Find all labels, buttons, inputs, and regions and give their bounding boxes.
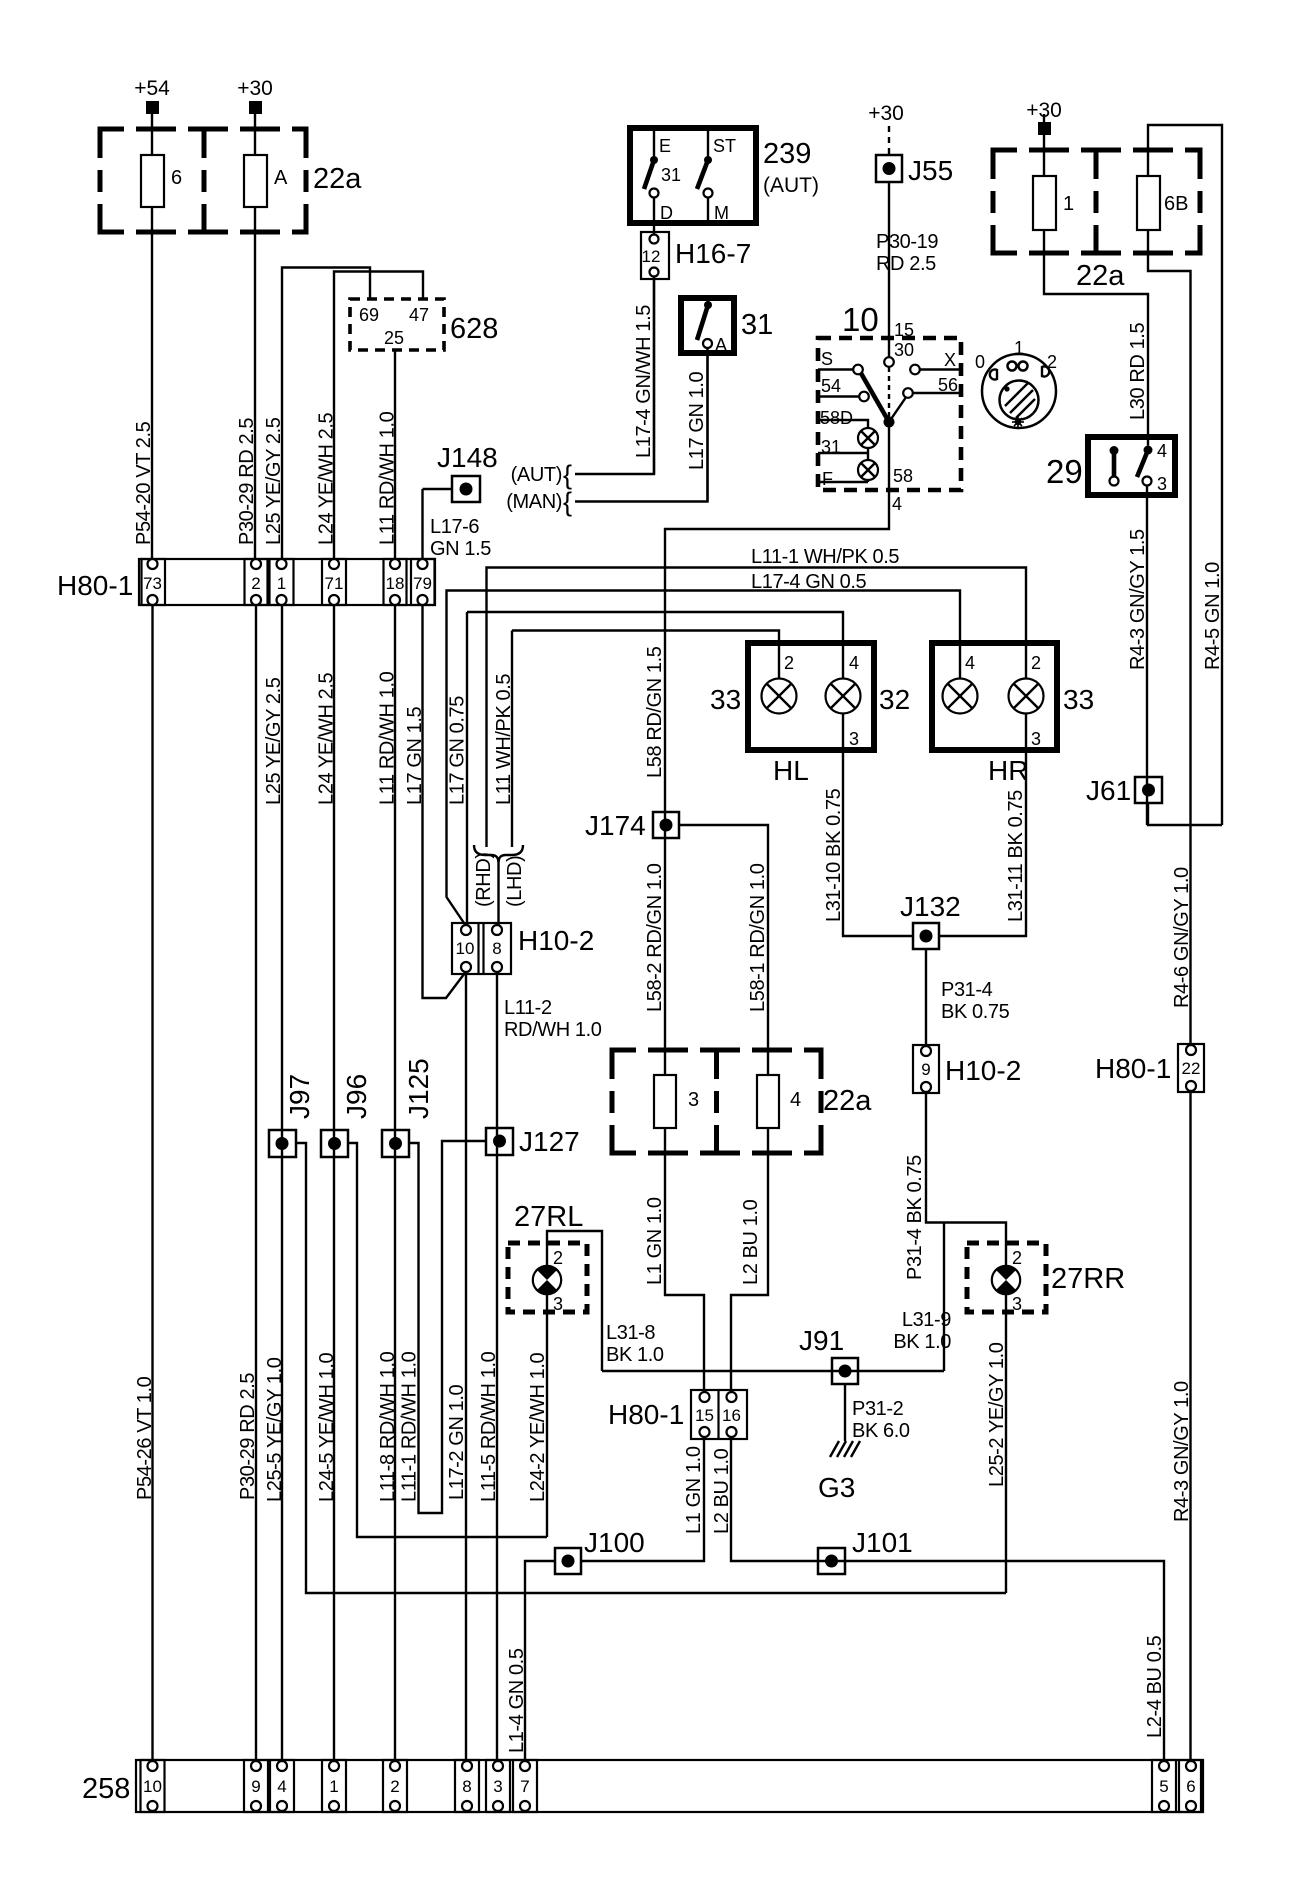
svg-text:22a: 22a — [1076, 260, 1125, 292]
svg-text:E: E — [659, 136, 671, 156]
svg-text:3: 3 — [553, 1294, 563, 1314]
svg-text:4: 4 — [277, 1777, 286, 1796]
svg-text:P54-26 VT 1.0: P54-26 VT 1.0 — [134, 1376, 156, 1500]
svg-text:258: 258 — [82, 1773, 130, 1805]
svg-text:L2 BU 1.0: L2 BU 1.0 — [740, 1199, 762, 1285]
svg-text:L25 YE/GY 2.5: L25 YE/GY 2.5 — [263, 417, 285, 545]
svg-text:+30: +30 — [1026, 99, 1062, 122]
svg-text:J55: J55 — [908, 155, 953, 186]
svg-text:(MAN): (MAN) — [506, 491, 562, 513]
svg-text:L31-8: L31-8 — [606, 1322, 655, 1344]
svg-text:J132: J132 — [900, 891, 961, 922]
svg-text:RD/WH 1.0: RD/WH 1.0 — [504, 1019, 602, 1041]
svg-text:L25 YE/GY 2.5: L25 YE/GY 2.5 — [263, 677, 285, 805]
svg-text:2: 2 — [390, 1777, 399, 1796]
svg-text:A: A — [274, 167, 288, 189]
svg-text:16: 16 — [722, 1406, 741, 1425]
svg-text:31: 31 — [661, 165, 681, 185]
svg-text:4: 4 — [1157, 441, 1167, 461]
svg-text:H10-2: H10-2 — [518, 925, 594, 956]
svg-text:L24 YE/WH 2.5: L24 YE/WH 2.5 — [316, 412, 338, 545]
svg-text:S: S — [821, 349, 833, 369]
svg-text:HR: HR — [988, 755, 1028, 786]
svg-text:1: 1 — [1014, 338, 1024, 358]
svg-text:1: 1 — [277, 574, 286, 593]
svg-text:P31-2: P31-2 — [852, 1398, 904, 1420]
svg-text:56: 56 — [938, 375, 958, 395]
svg-text:L17-4 GN/WH 1.5: L17-4 GN/WH 1.5 — [633, 305, 655, 458]
svg-text:4: 4 — [892, 494, 902, 514]
svg-text:2: 2 — [1031, 653, 1041, 673]
svg-text:54: 54 — [821, 376, 841, 396]
svg-text:9: 9 — [251, 1777, 260, 1796]
svg-text:BK 6.0: BK 6.0 — [852, 1420, 910, 1442]
svg-text:6B: 6B — [1164, 193, 1188, 215]
svg-text:0: 0 — [975, 352, 985, 372]
svg-text:L11-1 RD/WH 1.0: L11-1 RD/WH 1.0 — [399, 1351, 421, 1502]
svg-text:8: 8 — [492, 939, 501, 958]
svg-text:32: 32 — [879, 684, 910, 715]
svg-text:L1 GN 1.0: L1 GN 1.0 — [644, 1197, 666, 1285]
svg-text:628: 628 — [450, 313, 498, 345]
svg-text:6: 6 — [171, 167, 182, 189]
svg-text:X: X — [944, 350, 956, 370]
svg-text:27RL: 27RL — [514, 1201, 583, 1233]
svg-text:L17-4 GN 0.5: L17-4 GN 0.5 — [751, 571, 867, 593]
svg-text:58: 58 — [893, 466, 913, 486]
svg-text:H80-1: H80-1 — [57, 570, 133, 601]
svg-text:58D: 58D — [820, 408, 853, 428]
svg-text:10: 10 — [842, 301, 879, 338]
svg-text:33: 33 — [710, 684, 741, 715]
svg-text:J61: J61 — [1086, 775, 1131, 806]
svg-text:L30 RD 1.5: L30 RD 1.5 — [1127, 323, 1149, 420]
svg-text:2: 2 — [1012, 1248, 1022, 1268]
svg-text:P30-29 RD 2.5: P30-29 RD 2.5 — [237, 1373, 259, 1500]
svg-text:(LHD): (LHD) — [504, 856, 526, 907]
svg-text:L31-10 BK 0.75: L31-10 BK 0.75 — [823, 788, 845, 922]
svg-text:H10-2: H10-2 — [945, 1055, 1021, 1086]
svg-text:1: 1 — [329, 1777, 338, 1796]
svg-text:+30: +30 — [237, 77, 273, 100]
svg-text:ST: ST — [713, 136, 736, 156]
svg-text:3: 3 — [849, 729, 859, 749]
svg-text:15: 15 — [894, 320, 914, 340]
svg-text:4: 4 — [790, 1089, 801, 1111]
svg-text:9: 9 — [921, 1060, 930, 1079]
svg-text:1: 1 — [1063, 193, 1074, 215]
svg-text:R4-3 GN/GY 1.5: R4-3 GN/GY 1.5 — [1127, 529, 1149, 670]
svg-text:6: 6 — [1186, 1777, 1195, 1796]
svg-text:10: 10 — [456, 939, 475, 958]
svg-text:3: 3 — [688, 1089, 699, 1111]
svg-text:L25-2 YE/GY 1.0: L25-2 YE/GY 1.0 — [986, 1342, 1008, 1487]
svg-text:5: 5 — [1159, 1777, 1168, 1796]
svg-text:L58-1 RD/GN 1.0: L58-1 RD/GN 1.0 — [747, 863, 769, 1012]
svg-text:71: 71 — [325, 574, 344, 593]
svg-text:L31-9: L31-9 — [902, 1309, 951, 1331]
svg-text:18: 18 — [386, 574, 405, 593]
svg-text:J100: J100 — [584, 1527, 645, 1558]
svg-text:P31-4: P31-4 — [941, 979, 993, 1001]
svg-text:L17 GN 1.5: L17 GN 1.5 — [404, 706, 426, 805]
svg-text:L24 YE/WH 2.5: L24 YE/WH 2.5 — [316, 672, 338, 805]
svg-text:L58 RD/GN 1.5: L58 RD/GN 1.5 — [644, 646, 666, 778]
svg-text:3: 3 — [1031, 729, 1041, 749]
svg-text:L2 BU 1.0: L2 BU 1.0 — [711, 1448, 733, 1534]
svg-text:31: 31 — [821, 437, 841, 457]
svg-text:33: 33 — [1063, 684, 1094, 715]
svg-text:8: 8 — [462, 1777, 471, 1796]
svg-text:73: 73 — [143, 574, 162, 593]
svg-text:L11 RD/WH 1.0: L11 RD/WH 1.0 — [377, 671, 399, 805]
svg-text:L11-5 RD/WH 1.0: L11-5 RD/WH 1.0 — [478, 1351, 500, 1502]
svg-text:L17-6: L17-6 — [430, 516, 479, 538]
svg-text:3: 3 — [1012, 1294, 1022, 1314]
svg-text:L11 WH/PK 0.5: L11 WH/PK 0.5 — [493, 674, 515, 805]
svg-text:L24-5 YE/WH 1.0: L24-5 YE/WH 1.0 — [316, 1352, 338, 1502]
svg-text:31: 31 — [741, 309, 773, 341]
svg-text:L58-2 RD/GN 1.0: L58-2 RD/GN 1.0 — [644, 863, 666, 1012]
svg-text:RD 2.5: RD 2.5 — [876, 253, 936, 275]
svg-text:J174: J174 — [585, 810, 646, 841]
svg-text:P30-29 RD 2.5: P30-29 RD 2.5 — [236, 418, 258, 545]
svg-text:J125: J125 — [403, 1058, 434, 1119]
svg-text:F: F — [822, 469, 833, 489]
svg-text:L11-8 RD/WH 1.0: L11-8 RD/WH 1.0 — [377, 1351, 399, 1502]
svg-text:79: 79 — [413, 574, 432, 593]
svg-text:G3: G3 — [818, 1472, 855, 1503]
svg-text:4: 4 — [965, 653, 975, 673]
svg-text:+54: +54 — [134, 77, 170, 100]
svg-text:2: 2 — [784, 653, 794, 673]
svg-text:J101: J101 — [852, 1527, 913, 1558]
svg-text:{: { — [563, 487, 572, 517]
svg-text:(AUT): (AUT) — [763, 174, 819, 197]
svg-text:P30-19: P30-19 — [876, 231, 938, 253]
svg-text:4: 4 — [849, 653, 859, 673]
svg-text:H80-1: H80-1 — [1095, 1053, 1171, 1084]
svg-text:L2-4 BU 0.5: L2-4 BU 0.5 — [1144, 1635, 1166, 1738]
svg-text:H16-7: H16-7 — [675, 238, 751, 269]
svg-text:29: 29 — [1046, 453, 1083, 490]
svg-text:P54-20 VT 2.5: P54-20 VT 2.5 — [133, 421, 155, 545]
svg-text:R4-3 GN/GY 1.0: R4-3 GN/GY 1.0 — [1171, 1381, 1193, 1522]
svg-text:BK 0.75: BK 0.75 — [941, 1001, 1010, 1023]
svg-text:22: 22 — [1182, 1059, 1201, 1078]
svg-text:L24-2 YE/WH 1.0: L24-2 YE/WH 1.0 — [527, 1352, 549, 1502]
svg-text:HL: HL — [773, 755, 809, 786]
svg-text:L11-2: L11-2 — [504, 997, 552, 1019]
svg-text:P31-4 BK 0.75: P31-4 BK 0.75 — [904, 1155, 926, 1280]
svg-text:L17 GN 0.75: L17 GN 0.75 — [447, 696, 469, 805]
svg-text:15: 15 — [695, 1406, 714, 1425]
svg-text:27RR: 27RR — [1051, 1263, 1125, 1295]
svg-text:R4-5 GN 1.0: R4-5 GN 1.0 — [1202, 562, 1224, 670]
svg-text:J91: J91 — [799, 1325, 844, 1356]
svg-text:L11-1 WH/PK 0.5: L11-1 WH/PK 0.5 — [751, 546, 899, 568]
svg-text:D: D — [660, 203, 673, 223]
svg-text:10: 10 — [143, 1777, 162, 1796]
svg-text:L1-4 GN 0.5: L1-4 GN 0.5 — [506, 1648, 528, 1753]
svg-text:L31-11 BK 0.75: L31-11 BK 0.75 — [1005, 790, 1027, 922]
svg-text:3: 3 — [493, 1777, 502, 1796]
svg-text:30: 30 — [894, 340, 914, 360]
svg-text:47: 47 — [409, 305, 429, 325]
svg-text:A: A — [715, 335, 727, 355]
svg-text:J127: J127 — [519, 1126, 580, 1157]
svg-text:+30: +30 — [868, 102, 904, 125]
svg-text:25: 25 — [384, 328, 404, 348]
svg-text:{: { — [563, 460, 572, 490]
svg-text:L17-2 GN 1.0: L17-2 GN 1.0 — [446, 1384, 468, 1500]
svg-text:2: 2 — [553, 1248, 563, 1268]
svg-text:239: 239 — [763, 138, 811, 170]
svg-text:J97: J97 — [284, 1074, 315, 1119]
svg-text:7: 7 — [520, 1777, 529, 1796]
svg-text:L17 GN 1.0: L17 GN 1.0 — [686, 371, 708, 470]
svg-text:J148: J148 — [437, 442, 498, 473]
svg-text:22a: 22a — [823, 1085, 872, 1117]
svg-text:R4-6 GN/GY 1.0: R4-6 GN/GY 1.0 — [1171, 867, 1193, 1008]
svg-text:BK 1.0: BK 1.0 — [606, 1344, 664, 1366]
svg-text:M: M — [714, 203, 729, 223]
svg-text:BK 1.0: BK 1.0 — [893, 1331, 951, 1353]
svg-text:L11 RD/WH 1.0: L11 RD/WH 1.0 — [377, 411, 399, 545]
svg-text:GN 1.5: GN 1.5 — [430, 538, 491, 560]
svg-text:22a: 22a — [313, 163, 362, 195]
svg-text:(AUT): (AUT) — [511, 464, 562, 486]
svg-text:J96: J96 — [341, 1074, 372, 1119]
svg-text:2: 2 — [251, 574, 260, 593]
svg-text:L1 GN 1.0: L1 GN 1.0 — [683, 1446, 705, 1534]
svg-text:H80-1: H80-1 — [608, 1399, 684, 1430]
svg-text:12: 12 — [642, 247, 661, 266]
svg-text:69: 69 — [359, 305, 379, 325]
svg-text:3: 3 — [1157, 474, 1167, 494]
svg-text:(RHD): (RHD) — [473, 852, 495, 907]
svg-text:L25-5 YE/GY 1.0: L25-5 YE/GY 1.0 — [264, 1357, 286, 1502]
